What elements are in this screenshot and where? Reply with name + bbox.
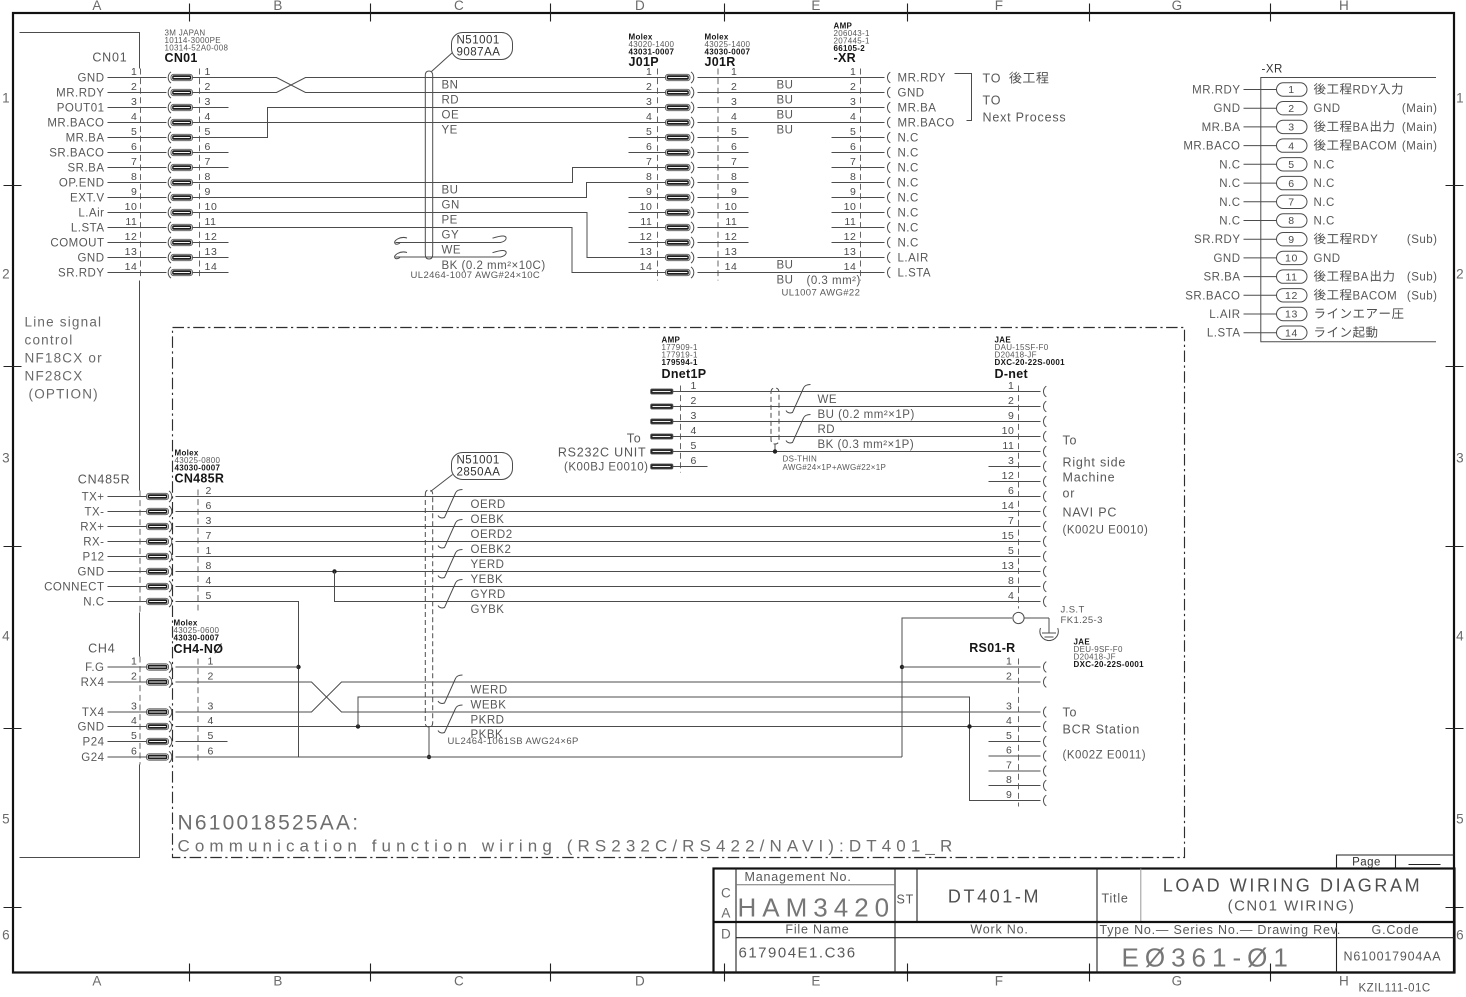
svg-text:UL1007 AWG#22: UL1007 AWG#22 <box>782 288 861 299</box>
svg-text:SR.BA: SR.BA <box>1203 272 1240 284</box>
wire Dnet1P pin 1 to D-net <box>673 391 1041 393</box>
connector Dnet1P pin 4 contact <box>651 434 674 439</box>
svg-text:2: 2 <box>205 81 211 93</box>
svg-text:(Main): (Main) <box>1402 103 1438 115</box>
wire J01R pin 12 stub <box>698 242 749 244</box>
svg-text:MR.BACO: MR.BACO <box>898 118 955 130</box>
svg-text:N.C: N.C <box>898 193 919 205</box>
grid tick bottom <box>1089 964 1091 982</box>
svg-text:3: 3 <box>205 96 211 108</box>
connector CN01 pin 10 contact <box>168 207 171 218</box>
RS01-R pin 1 terminal arc <box>1043 662 1046 673</box>
svg-text:COMOUT: COMOUT <box>50 238 104 250</box>
svg-text:TX+: TX+ <box>82 492 105 504</box>
svg-text:4: 4 <box>206 575 212 587</box>
wire CH4 GND to RS01-R pin4 <box>176 726 1041 728</box>
svg-text:5: 5 <box>205 126 211 138</box>
wire CN01 pin9 to J01P pin8 <box>193 183 666 198</box>
svg-text:N.C: N.C <box>898 133 919 145</box>
svg-text:7: 7 <box>205 156 211 168</box>
svg-text:2: 2 <box>646 81 652 93</box>
connector CN01 pin 7 contact <box>168 162 171 173</box>
XR terminal 3 pill <box>1277 120 1308 133</box>
svg-text:9: 9 <box>731 186 737 198</box>
svg-text:179594-1: 179594-1 <box>662 358 698 367</box>
svg-text:9087AA: 9087AA <box>457 47 501 59</box>
connector CN01 pin 13 contact <box>168 252 171 263</box>
wire Dnet1P pin 4 to D-net <box>673 436 1041 438</box>
grid tick top <box>724 4 726 22</box>
D-net pin 7 terminal arc <box>1043 521 1046 532</box>
D-net pin 1 terminal arc <box>1043 386 1046 397</box>
wire CN01 pin 9 lead <box>108 197 167 199</box>
svg-text:MR.BACO: MR.BACO <box>47 118 104 130</box>
svg-text:5: 5 <box>131 126 137 138</box>
svg-text:4: 4 <box>646 111 652 123</box>
D-net pin 12 terminal arc <box>1043 476 1046 487</box>
wire XR terminal 6 <box>1244 182 1277 184</box>
D-net pin 2 terminal arc <box>1043 401 1046 412</box>
XR pin 10 terminal arc <box>887 207 890 218</box>
svg-text:(0.3 mm²): (0.3 mm²) <box>807 275 861 287</box>
wire J01R pin 2 to XR <box>698 92 885 94</box>
svg-text:Machine: Machine <box>1063 471 1116 485</box>
svg-text:Next Process: Next Process <box>983 111 1067 125</box>
twisted pair mark <box>438 520 463 548</box>
svg-text:11: 11 <box>1002 440 1014 452</box>
svg-text:(K002U E0010): (K002U E0010) <box>1063 525 1149 537</box>
connector CN485R pin 3 contact <box>147 523 169 529</box>
wire CH4 F.G lead <box>108 666 147 668</box>
balloon N51001 9087AA <box>452 33 513 60</box>
svg-text:13: 13 <box>640 246 653 258</box>
svg-text:WE: WE <box>442 245 462 257</box>
svg-text:4: 4 <box>205 111 211 123</box>
wire Dnet1P pin 2 to D-net <box>673 406 1041 408</box>
svg-text:10: 10 <box>205 201 218 213</box>
wire CN01 pin14 stub <box>193 272 229 274</box>
svg-text:SR.RDY: SR.RDY <box>1194 234 1240 246</box>
wire XR terminal 8 <box>1244 220 1277 222</box>
svg-text:13: 13 <box>1285 309 1298 321</box>
XR terminal 12 label right <box>1314 289 1326 301</box>
wire XR pin 10 stub <box>832 212 885 214</box>
svg-text:6: 6 <box>1456 928 1465 943</box>
wire CN485R RX+ lead <box>108 526 147 528</box>
svg-text:3: 3 <box>1288 122 1294 134</box>
XR terminal 10 pill <box>1277 251 1308 264</box>
wire CH4 GND lead <box>108 726 147 728</box>
page box <box>1337 855 1455 869</box>
svg-text:2: 2 <box>2 267 11 282</box>
RS01-R pin 5 terminal arc <box>1043 736 1046 747</box>
cable capsule CN485R (dashed) <box>425 490 432 727</box>
wire D-net pin12 stub <box>989 481 1041 483</box>
connector CH4 pin 2 contact <box>147 679 169 685</box>
svg-text:6: 6 <box>205 141 211 153</box>
svg-text:PKRD: PKRD <box>471 715 505 727</box>
svg-text:12: 12 <box>844 231 857 243</box>
svg-text:5: 5 <box>691 440 697 452</box>
svg-text:N.C: N.C <box>898 163 919 175</box>
svg-text:8: 8 <box>1288 215 1294 227</box>
svg-text:2: 2 <box>1008 395 1014 407</box>
wire CN01 pin4 to J01P pin4 <box>193 122 666 124</box>
svg-text:A: A <box>721 906 731 921</box>
svg-text:UL2464-1061SB AWG24×6P: UL2464-1061SB AWG24×6P <box>448 736 579 747</box>
XR terminal 9 label right <box>1314 233 1326 245</box>
wire CN01 pin 6 lead <box>108 152 167 154</box>
svg-text:6: 6 <box>731 141 737 153</box>
XR pin 1 terminal arc <box>887 72 890 83</box>
XR terminal 3 label right <box>1314 120 1326 132</box>
connector J01P pin 6 contact <box>666 149 691 155</box>
wire CN485R N.C lead <box>108 601 147 603</box>
twisted pair mark <box>438 675 463 703</box>
svg-text:1: 1 <box>131 656 137 668</box>
wire J01R pin 6 stub <box>698 152 749 154</box>
D-net pin 13 terminal arc <box>1043 566 1046 577</box>
connector CN01 pin 9 contact <box>168 192 171 203</box>
wire CN485R CONNECT to D-net <box>176 586 1041 588</box>
D-net pin 15 terminal arc <box>1043 536 1046 547</box>
grid tick top <box>370 4 372 22</box>
dashed column J01R <box>717 69 719 281</box>
svg-text:1: 1 <box>646 66 652 78</box>
svg-text:LOAD WIRING DIAGRAM: LOAD WIRING DIAGRAM <box>1163 876 1422 896</box>
wire XR terminal 13 <box>1244 313 1277 315</box>
wire CN01 pin 13 lead <box>108 257 167 259</box>
svg-text:BA: BA <box>1353 272 1369 284</box>
svg-text:12: 12 <box>1285 290 1298 302</box>
D-net pin 14 terminal arc <box>1043 506 1046 517</box>
svg-text:13: 13 <box>1002 560 1015 572</box>
wire XR terminal 14 <box>1244 332 1277 334</box>
wire CN485R TX- to D-net <box>176 511 1041 513</box>
svg-text:5: 5 <box>206 590 212 602</box>
grid tick left <box>4 546 22 548</box>
svg-text:7: 7 <box>850 156 856 168</box>
svg-text:GND: GND <box>1213 253 1240 265</box>
svg-text:D: D <box>635 0 646 13</box>
svg-text:9: 9 <box>1008 410 1014 422</box>
svg-text:D: D <box>635 974 646 989</box>
svg-text:12: 12 <box>725 231 738 243</box>
wire J01P pin 12 stub <box>629 242 666 244</box>
spare wire loop GY <box>395 236 507 244</box>
svg-text:4: 4 <box>131 715 137 727</box>
svg-text:N.C: N.C <box>1314 216 1335 228</box>
svg-text:CN01: CN01 <box>165 51 198 65</box>
svg-text:5: 5 <box>731 126 737 138</box>
connector CN01 pin 11 contact <box>168 222 171 233</box>
twisted pair mark RD/BK <box>786 415 811 443</box>
svg-text:L.Air: L.Air <box>78 208 104 220</box>
svg-text:N610017904AA: N610017904AA <box>1344 950 1442 964</box>
dashed connector column CH4 left <box>139 657 141 765</box>
svg-text:BU: BU <box>777 110 794 122</box>
svg-text:DXC-20-22S-0001: DXC-20-22S-0001 <box>1074 660 1145 669</box>
svg-text:5: 5 <box>131 730 137 742</box>
dashed column CN01 right <box>199 69 201 280</box>
svg-text:N51001: N51001 <box>457 35 500 47</box>
svg-text:FK1.25-3: FK1.25-3 <box>1061 615 1103 626</box>
svg-text:4: 4 <box>1288 140 1294 152</box>
svg-text:7: 7 <box>1006 760 1012 772</box>
svg-text:BU: BU <box>442 185 459 197</box>
junction dot RS01-R pin1 <box>900 665 904 669</box>
wire CN01 pin13 stub <box>193 257 229 259</box>
svg-text:2: 2 <box>1456 267 1465 282</box>
wire CN01 pin 3 lead <box>108 107 167 109</box>
svg-text:8: 8 <box>205 171 211 183</box>
svg-text:4: 4 <box>208 715 214 727</box>
cable capsule Dnet (dashed) <box>771 388 779 444</box>
svg-text:BU: BU <box>777 260 794 272</box>
svg-text:GND: GND <box>898 88 925 100</box>
wire XR pin 7 stub <box>832 167 885 169</box>
svg-text:MR.RDY: MR.RDY <box>1192 85 1240 97</box>
wire J01P pin 10 stub <box>629 212 666 214</box>
svg-text:N.C: N.C <box>898 208 919 220</box>
svg-text:(K00BJ E0010): (K00BJ E0010) <box>564 462 649 474</box>
svg-text:BU: BU <box>777 80 794 92</box>
svg-text:N.C: N.C <box>1219 216 1240 228</box>
svg-text:N.C: N.C <box>898 223 919 235</box>
grid tick top <box>189 4 191 22</box>
XR pin 11 terminal arc <box>887 222 890 233</box>
svg-text:YERD: YERD <box>471 559 505 571</box>
svg-text:N610018525AA:: N610018525AA: <box>178 812 361 835</box>
twisted pair mark <box>438 490 463 518</box>
svg-text:H: H <box>1339 0 1350 13</box>
svg-text:4: 4 <box>1456 629 1465 644</box>
svg-text:SR.BACO: SR.BACO <box>49 148 104 160</box>
svg-text:HAM3420: HAM3420 <box>738 893 896 923</box>
svg-text:BU: BU <box>777 275 794 287</box>
grid tick bottom <box>724 964 726 982</box>
wire Dnet1P pin 6 stub <box>673 466 708 468</box>
svg-text:9: 9 <box>205 186 211 198</box>
svg-text:6: 6 <box>131 746 137 758</box>
wire GND branch WERD to RS01-R vertical <box>358 697 1041 801</box>
svg-text:BACOM: BACOM <box>1353 141 1398 153</box>
svg-text:N.C: N.C <box>83 597 104 609</box>
svg-text:5: 5 <box>1008 545 1014 557</box>
D-net pin 10 terminal arc <box>1043 431 1046 442</box>
balloon pointer <box>432 53 453 72</box>
wire J01R pin 4 to XR <box>698 122 885 124</box>
svg-text:N.C: N.C <box>898 148 919 160</box>
spare wire loop WE <box>395 250 507 258</box>
svg-text:15: 15 <box>1002 530 1015 542</box>
wire J01P pin 5 stub <box>629 137 666 139</box>
svg-text:2: 2 <box>206 485 212 497</box>
XR terminal 7 pill <box>1277 195 1308 208</box>
svg-text:(Sub): (Sub) <box>1407 272 1438 284</box>
connector Dnet1P pin 1 contact <box>651 389 674 394</box>
connector CN01 pin 1 contact <box>168 72 171 83</box>
svg-text:GYBK: GYBK <box>471 604 505 616</box>
svg-text:3: 3 <box>1008 455 1014 467</box>
twisted pair mark <box>438 705 463 733</box>
wire J01R pin 7 stub <box>698 167 749 169</box>
wire J01R pin 14 to XR <box>698 272 885 274</box>
wire CH4 F.G to shield junction <box>176 666 299 668</box>
wire CN01 pin 2 lead <box>108 92 167 94</box>
svg-text:E: E <box>811 974 821 989</box>
svg-text:1: 1 <box>208 656 214 668</box>
svg-text:1: 1 <box>2 91 11 106</box>
svg-text:GND: GND <box>1314 253 1341 265</box>
svg-text:TO: TO <box>983 94 1002 108</box>
svg-text:GND: GND <box>77 567 104 579</box>
wire CN485R TX+ lead <box>108 496 147 498</box>
svg-text:OEBK2: OEBK2 <box>471 544 512 556</box>
svg-text:Dnet1P: Dnet1P <box>662 367 707 381</box>
svg-text:D-net: D-net <box>995 367 1029 381</box>
svg-text:10: 10 <box>725 201 738 213</box>
title block outline <box>714 869 1455 973</box>
wire XR terminal 11 <box>1244 276 1277 278</box>
svg-text:2: 2 <box>691 395 697 407</box>
svg-text:14: 14 <box>205 261 218 273</box>
svg-text:12: 12 <box>205 231 218 243</box>
wire CH4 P24 stub <box>176 741 228 743</box>
svg-text:3: 3 <box>131 96 137 108</box>
svg-text:4: 4 <box>131 111 137 123</box>
svg-text:CN485R: CN485R <box>175 472 225 486</box>
svg-text:To: To <box>1063 706 1078 720</box>
XR terminal 1 pill <box>1277 83 1308 96</box>
wire CN01 pin 5 lead <box>108 137 167 139</box>
svg-text:4: 4 <box>691 425 697 437</box>
D-net pin 9 terminal arc <box>1043 416 1046 427</box>
svg-text:CH4-NØ: CH4-NØ <box>174 642 224 656</box>
wire XR terminal 4 <box>1244 145 1277 147</box>
svg-text:1: 1 <box>1006 656 1012 668</box>
grid tick bottom <box>370 964 372 982</box>
XR pin 9 terminal arc <box>887 192 890 203</box>
svg-text:N.C: N.C <box>1314 178 1335 190</box>
wire CN01 pin7 stub <box>193 167 229 169</box>
dashed connector column CN485R left <box>139 491 141 613</box>
wire CN01 pin 1 lead <box>108 77 167 79</box>
wire RS01-R pin 8 stub <box>989 785 1041 787</box>
svg-text:10: 10 <box>844 201 857 213</box>
dashed column D-net <box>1018 386 1020 609</box>
wire CN01 pin8 to J01P pin7 <box>193 168 666 183</box>
svg-text:14: 14 <box>640 261 653 273</box>
svg-text:NF18CX or: NF18CX or <box>25 351 103 366</box>
svg-text:14: 14 <box>1285 327 1298 339</box>
svg-text:DT401-M: DT401-M <box>948 887 1041 907</box>
svg-text:3: 3 <box>2 451 11 466</box>
svg-text:OERD2: OERD2 <box>471 529 513 541</box>
wire CN485R P12 to D-net <box>176 556 1041 558</box>
svg-text:N.C: N.C <box>898 178 919 190</box>
svg-text:11: 11 <box>205 216 217 228</box>
D-net pin 4 terminal arc <box>1043 596 1046 607</box>
svg-text:C: C <box>721 886 732 901</box>
grid tick left <box>4 185 22 187</box>
connector CN01 pin 12 contact <box>168 237 171 248</box>
XR pin 13 terminal arc <box>887 252 890 263</box>
svg-text:-XR: -XR <box>1262 64 1283 76</box>
RS01-R pin 6 terminal arc <box>1043 751 1046 762</box>
grid tick bottom <box>550 964 552 982</box>
D-net pin 8 terminal arc <box>1043 581 1046 592</box>
svg-text:3: 3 <box>691 410 697 422</box>
wire ring to ground <box>1024 617 1049 619</box>
cable drain to G24 rail <box>428 727 430 757</box>
connector J01P pin 8 contact <box>666 179 691 185</box>
wire J01P pin 6 stub <box>629 152 666 154</box>
connector J01P pin 14 contact <box>666 269 691 275</box>
svg-text:10: 10 <box>1285 253 1298 265</box>
svg-text:7: 7 <box>1008 515 1014 527</box>
grid tick bottom <box>907 964 909 982</box>
svg-text:RX+: RX+ <box>80 522 104 534</box>
wire CN485R TX+ to D-net <box>176 496 1041 498</box>
svg-text:6: 6 <box>1006 745 1012 757</box>
connector J01P pin 3 contact <box>666 104 691 110</box>
wire CN01 pin 7 lead <box>108 167 167 169</box>
svg-text:6: 6 <box>2 928 11 943</box>
svg-text:Communication function wiring: Communication function wiring (RS232C/RS… <box>178 837 958 856</box>
connector CN01 pin 8 contact <box>168 177 171 188</box>
svg-text:SR.BACO: SR.BACO <box>1185 290 1240 302</box>
svg-text:11: 11 <box>125 216 137 228</box>
wire CH4 TX4 lead <box>108 711 147 713</box>
svg-text:8: 8 <box>850 171 856 183</box>
wire CN01 pin 8 lead <box>108 182 167 184</box>
RS01-R pin 4 terminal arc <box>1043 721 1046 732</box>
svg-text:7: 7 <box>206 530 212 542</box>
wire CN485R GND lead <box>108 571 147 573</box>
svg-text:N.C: N.C <box>1314 197 1335 209</box>
svg-text:WERD: WERD <box>471 685 508 697</box>
dashed column Dnet1P <box>680 386 682 473</box>
bracket line signal control region <box>20 33 140 858</box>
dash-dot communication option box <box>173 328 1185 858</box>
svg-text:10: 10 <box>640 201 653 213</box>
svg-text:3: 3 <box>1006 701 1012 713</box>
wire XR pin 5 stub <box>832 137 885 139</box>
dashed column XR <box>860 69 862 281</box>
svg-text:RDY: RDY <box>1353 234 1379 246</box>
connector CN485R pin 8 contact <box>147 568 169 574</box>
svg-text:L.STA: L.STA <box>898 268 932 280</box>
wire CH4 RX4 to RS01-R pin3 (crossover) <box>176 682 1041 712</box>
grid tick bottom <box>189 964 191 982</box>
connector J01P pin 4 contact <box>666 119 691 125</box>
svg-text:N.C: N.C <box>1219 197 1240 209</box>
svg-text:9: 9 <box>646 186 652 198</box>
svg-text:6: 6 <box>850 141 856 153</box>
svg-text:5: 5 <box>1456 812 1465 827</box>
grid tick left <box>4 907 22 909</box>
svg-text:7: 7 <box>731 156 737 168</box>
svg-text:BU (0.2 mm²×1P): BU (0.2 mm²×1P) <box>818 409 915 421</box>
cable jacket capsule top block <box>425 71 432 259</box>
svg-text:BA: BA <box>1353 122 1369 134</box>
svg-text:13: 13 <box>844 246 857 258</box>
svg-text:14: 14 <box>844 261 857 273</box>
connector CH4 pin 6 contact <box>147 754 169 760</box>
svg-text:11: 11 <box>844 216 856 228</box>
wire J01R pin 5 stub <box>698 137 749 139</box>
